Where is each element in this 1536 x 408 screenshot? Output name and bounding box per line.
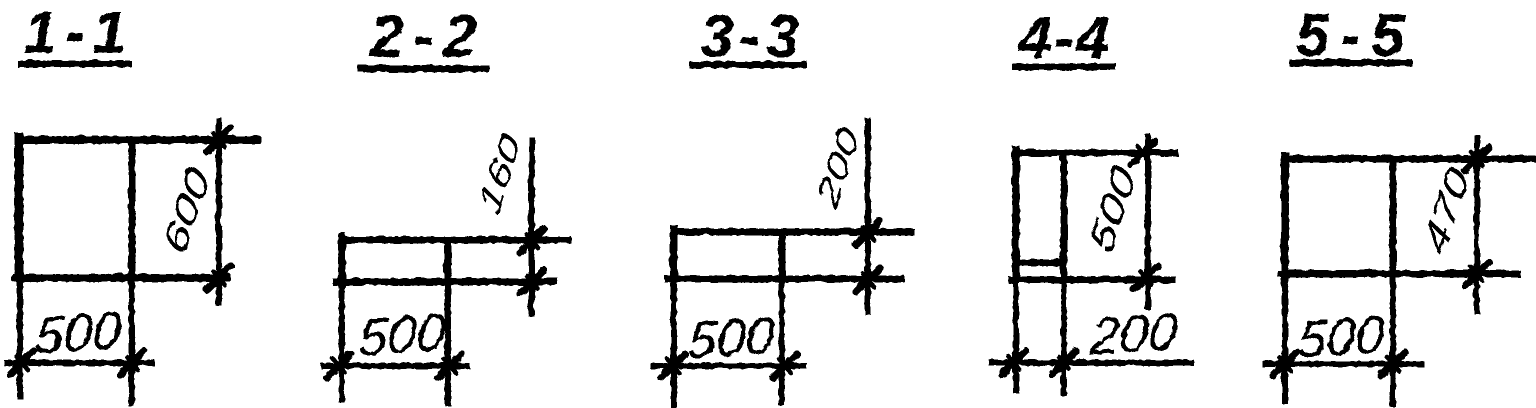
svg-text:3-3: 3-3 <box>700 2 805 69</box>
svg-text:1-1: 1-1 <box>23 0 134 65</box>
svg-text:500: 500 <box>356 303 447 367</box>
svg-text:470: 470 <box>1415 159 1477 260</box>
svg-text:5-5: 5-5 <box>1295 1 1415 68</box>
svg-text:600: 600 <box>155 159 217 260</box>
svg-text:500: 500 <box>685 306 776 370</box>
svg-text:4-4: 4-4 <box>1017 4 1111 71</box>
svg-text:500: 500 <box>1295 305 1386 369</box>
svg-text:160: 160 <box>471 126 528 219</box>
svg-text:200: 200 <box>808 119 865 214</box>
svg-text:2-2: 2-2 <box>369 2 487 69</box>
svg-text:200: 200 <box>1087 302 1179 366</box>
svg-text:500: 500 <box>32 301 123 365</box>
svg-text:500: 500 <box>1081 158 1143 259</box>
